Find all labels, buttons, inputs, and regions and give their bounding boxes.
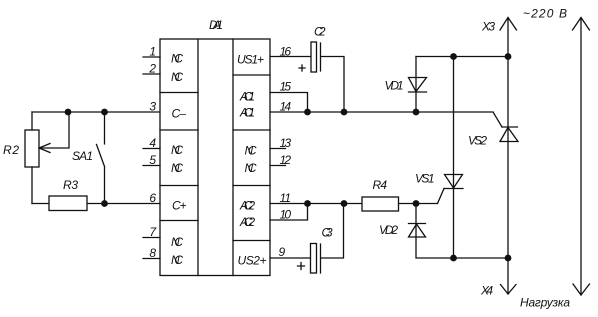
svg-text:14: 14 xyxy=(280,100,292,114)
svg-text:9: 9 xyxy=(279,245,286,259)
svg-text:AC2: AC2 xyxy=(239,199,255,213)
svg-text:13: 13 xyxy=(280,136,292,150)
svg-text:NC: NC xyxy=(171,253,183,267)
svg-text:NC: NC xyxy=(171,70,183,84)
svg-text:C+: C+ xyxy=(172,199,187,213)
svg-text:5: 5 xyxy=(149,153,156,167)
svg-text:Нагрузка: Нагрузка xyxy=(520,296,570,310)
svg-text:NC: NC xyxy=(171,161,183,175)
svg-text:US2+: US2+ xyxy=(238,254,267,268)
svg-text:C2: C2 xyxy=(314,25,326,39)
svg-text:8: 8 xyxy=(149,246,156,260)
svg-text:NC: NC xyxy=(245,161,257,175)
svg-text:R2: R2 xyxy=(3,143,19,157)
svg-text:6: 6 xyxy=(149,191,156,205)
svg-text:2: 2 xyxy=(148,62,156,76)
svg-text:C–: C– xyxy=(172,107,187,121)
svg-text:AC1: AC1 xyxy=(239,89,255,103)
svg-text:1: 1 xyxy=(149,45,156,59)
svg-text:US1+: US1+ xyxy=(237,53,264,67)
svg-text:NC: NC xyxy=(171,52,183,66)
svg-text:R4: R4 xyxy=(373,178,388,192)
svg-text:VD2: VD2 xyxy=(379,223,398,237)
svg-text:AC1: AC1 xyxy=(239,105,255,119)
svg-text:DA1: DA1 xyxy=(209,18,223,32)
svg-text:X4: X4 xyxy=(480,284,493,298)
svg-text:NC: NC xyxy=(245,144,257,158)
svg-text:3: 3 xyxy=(149,100,156,114)
svg-text:C3: C3 xyxy=(322,226,333,240)
svg-text:AC2: AC2 xyxy=(239,215,255,229)
svg-text:4: 4 xyxy=(149,136,156,150)
svg-text:16: 16 xyxy=(280,45,292,59)
svg-text:10: 10 xyxy=(280,208,292,222)
svg-text:12: 12 xyxy=(280,153,292,167)
svg-text:~220 В: ~220 В xyxy=(523,7,567,21)
svg-text:VD1: VD1 xyxy=(385,79,404,93)
svg-text:R3: R3 xyxy=(63,178,78,192)
svg-text:VS2: VS2 xyxy=(468,134,487,148)
svg-text:SA1: SA1 xyxy=(72,149,93,163)
svg-text:11: 11 xyxy=(280,191,292,205)
svg-text:NC: NC xyxy=(171,143,183,157)
svg-text:VS1: VS1 xyxy=(415,172,435,186)
svg-text:X3: X3 xyxy=(481,20,495,34)
svg-text:15: 15 xyxy=(280,80,292,94)
svg-text:NC: NC xyxy=(171,235,183,249)
